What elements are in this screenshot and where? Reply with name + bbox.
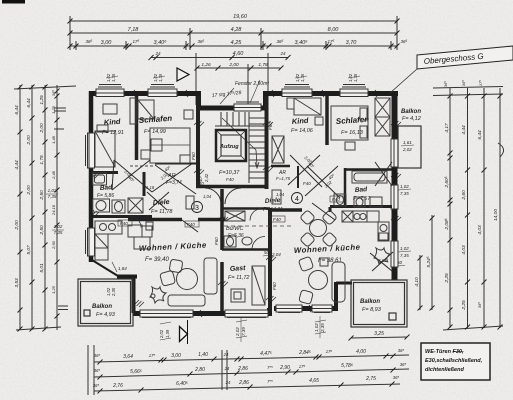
left kitchen (95, 221, 152, 260)
top-right balcony (398, 126, 421, 168)
Diele|Wohnen wall (128, 218, 182, 222)
svg-text:24: 24 (154, 51, 161, 56)
door gap to Wohnen (182, 220, 198, 232)
svg-text:AR: AR (167, 173, 176, 179)
svg-text:1,02: 1,02 (54, 224, 63, 229)
svg-text:3,40⁵: 3,40⁵ (294, 39, 308, 46)
stair hall bottom wall (196, 185, 268, 189)
svg-text:4,65: 4,65 (309, 378, 319, 384)
entry door arcs (205, 188, 221, 204)
svg-text:2,42: 2,42 (204, 173, 209, 183)
svg-text:3,25: 3,25 (374, 331, 384, 337)
svg-text:3: 3 (195, 205, 199, 212)
svg-text:F= 14,99: F= 14,99 (144, 129, 166, 135)
svg-text:7⁷⁵: 7⁷⁵ (267, 365, 273, 370)
svg-text:36⁵: 36⁵ (401, 39, 408, 44)
svg-text:5,24⁵: 5,24⁵ (426, 256, 432, 267)
svg-text:36⁵: 36⁵ (86, 39, 93, 44)
svg-text:1,25: 1,25 (51, 105, 56, 114)
center wall left apt|Gast (220, 189, 224, 250)
svg-text:F=10,37: F=10,37 (219, 170, 240, 176)
svg-text:36⁵: 36⁵ (400, 362, 407, 367)
dim line row4 24/4,60/24 (151, 57, 288, 59)
Diele-Bad door (147, 192, 167, 210)
svg-text:F40: F40 (187, 222, 195, 227)
svg-text:7⁷⁵: 7⁷⁵ (267, 379, 273, 384)
svg-text:19,60: 19,60 (233, 14, 248, 20)
svg-text:3,53: 3,53 (14, 278, 20, 288)
balcony door right wohnen (370, 253, 392, 271)
rotated door dims (123, 154, 336, 189)
svg-text:2,50: 2,50 (51, 240, 56, 250)
Gast furniture (231, 266, 265, 305)
rotated window dims above top wall (106, 73, 360, 82)
svg-text:Fenster 2,50m²: Fenster 2,50m² (235, 81, 269, 87)
svg-text:4,00: 4,00 (356, 349, 366, 355)
section triangles (159, 320, 188, 344)
svg-text:1,39: 1,39 (165, 329, 170, 338)
plant right (374, 248, 390, 264)
svg-text:2,86: 2,86 (237, 366, 248, 372)
svg-text:5,66⁵: 5,66⁵ (130, 369, 142, 375)
svg-text:1,25: 1,25 (51, 285, 56, 294)
svg-text:Balkon: Balkon (401, 109, 421, 115)
right Bad fixtures (334, 171, 387, 207)
stairs (215, 112, 265, 183)
svg-text:Aufzug: Aufzug (219, 144, 239, 150)
Kind door X (112, 160, 150, 190)
left Wohnen furniture (150, 258, 217, 306)
left Bad fixtures (93, 173, 144, 213)
svg-text:36⁵: 36⁵ (277, 39, 284, 44)
svg-text:2,80: 2,80 (194, 367, 205, 373)
svg-text:1,02: 1,02 (48, 188, 57, 193)
svg-text:2,02: 2,02 (235, 327, 240, 337)
svg-text:4,10: 4,10 (414, 277, 420, 287)
svg-text:1,04: 1,04 (203, 194, 212, 199)
svg-text:F=3,74: F=3,74 (166, 180, 182, 186)
right Diele small table (272, 190, 281, 204)
windows in left wall (86, 133, 95, 256)
svg-text:3,40⁶: 3,40⁶ (154, 39, 168, 46)
svg-text:17⁵: 17⁵ (478, 80, 483, 86)
svg-text:5,78⁶: 5,78⁶ (341, 363, 353, 369)
right wall (392, 91, 398, 280)
svg-text:24,18: 24,18 (51, 204, 56, 216)
balcony bottom dim 3,25 (351, 337, 407, 338)
svg-text:2,75: 2,75 (365, 376, 376, 382)
svg-text:5,07: 5,07 (26, 245, 32, 255)
svg-text:36⁵: 36⁵ (51, 90, 56, 96)
stairwell right wall (265, 96, 269, 189)
left wall to balcony diagonal (92, 260, 118, 276)
svg-text:36⁵: 36⁵ (477, 302, 482, 308)
elevator (216, 130, 246, 161)
Bad left wall (344, 168, 347, 208)
door diagonal crosses left apartment (112, 160, 241, 232)
right Kind furniture (272, 98, 323, 163)
svg-text:1,35: 1,35 (353, 73, 358, 82)
top wall left apartment (89, 91, 198, 96)
svg-text:F40: F40 (273, 217, 281, 222)
left wall (89, 91, 94, 262)
bottom dimension rows (88, 345, 409, 395)
svg-text:dichtenließend: dichtenließend (425, 367, 464, 373)
svg-text:2,00: 2,00 (14, 220, 20, 231)
INTERIOR WALLS right apartment (271, 96, 392, 212)
svg-text:36⁵: 36⁵ (398, 348, 405, 353)
Bü/WC top wall (222, 207, 270, 210)
arrow line of stair (222, 118, 256, 150)
windows in top wall (96, 85, 368, 112)
svg-text:4: 4 (295, 196, 299, 203)
svg-text:17⁵: 17⁵ (133, 39, 140, 44)
svg-text:3,00: 3,00 (171, 353, 181, 359)
right dimension columns (420, 87, 503, 331)
svg-text:1,75: 1,75 (39, 155, 45, 165)
fenster leader lines (220, 80, 260, 104)
svg-text:1,40: 1,40 (198, 352, 208, 358)
svg-text:2,25: 2,25 (461, 300, 467, 311)
svg-text:24: 24 (224, 366, 230, 371)
Bad bottom wall (330, 205, 392, 208)
svg-text:4,44: 4,44 (461, 125, 467, 135)
svg-text:WE-Türen F30,: WE-Türen F30, (425, 349, 464, 355)
svg-text:F= 14,06: F= 14,06 (291, 128, 314, 134)
svg-text:50: 50 (264, 250, 270, 255)
svg-text:Bü/WC: Bü/WC (226, 226, 243, 232)
jog between apartments at bottom (267, 308, 272, 316)
svg-text:1,35: 1,35 (111, 73, 116, 82)
bottom wall left apt (133, 311, 272, 316)
svg-text:Bad: Bad (355, 186, 369, 194)
Schlafen right / stairwell left wall (196, 96, 200, 186)
svg-text:2,00: 2,00 (39, 123, 45, 134)
svg-text:1,02: 1,02 (314, 323, 319, 332)
svg-text:2,00: 2,00 (26, 185, 32, 196)
svg-text:24: 24 (223, 352, 229, 357)
svg-text:2,04: 2,04 (271, 252, 281, 257)
svg-text:36⁵: 36⁵ (94, 353, 101, 358)
left Diele cabinet (146, 196, 194, 230)
dim line 19,60 (70, 20, 397, 22)
svg-text:2,02: 2,02 (402, 147, 412, 152)
svg-text:F60: F60 (214, 237, 219, 245)
svg-text:Diele: Diele (153, 199, 170, 207)
extra door arcs (130, 209, 265, 250)
svg-text:2,08⁶: 2,08⁶ (444, 218, 450, 230)
plant (150, 287, 166, 303)
svg-text:1,61: 1,61 (403, 140, 412, 145)
svg-text:5,01: 5,01 (39, 263, 45, 273)
right edge curve mark (498, 143, 504, 157)
dim line 7,18 / 4,28 / 8,00 (70, 32, 397, 34)
svg-text:6,40⁵: 6,40⁵ (176, 381, 188, 387)
svg-text:F40: F40 (120, 221, 128, 226)
Kind|Schlafen wall (325, 96, 329, 145)
dim line row5 1,26/2,00/1,78 (197, 67, 281, 69)
svg-text:1,48: 1,48 (51, 135, 56, 144)
stairwell window (234, 104, 261, 111)
svg-text:36⁵: 36⁵ (393, 375, 400, 380)
left Kind furniture (95, 98, 136, 167)
svg-text:1,78: 1,78 (258, 62, 268, 68)
svg-text:Balkon: Balkon (92, 304, 112, 310)
svg-text:2,86: 2,86 (238, 380, 249, 386)
svg-text:1,84: 1,84 (118, 266, 127, 271)
svg-text:1,18: 1,18 (146, 185, 155, 190)
svg-text:14,00: 14,00 (493, 209, 499, 221)
svg-text:F60: F60 (272, 282, 277, 290)
svg-text:F= 39,40: F= 39,40 (145, 257, 170, 263)
bottom wall right apt (274, 306, 338, 311)
wall right of Gast (268, 208, 272, 311)
Bad bottom wall (93, 215, 152, 218)
svg-text:1,26: 1,26 (201, 62, 211, 68)
bottom-right balcony (351, 280, 407, 327)
svg-text:2,00: 2,00 (228, 62, 239, 68)
svg-text:36⁵: 36⁵ (94, 368, 101, 373)
svg-text:2,90: 2,90 (279, 365, 290, 371)
svg-text:F60: F60 (268, 122, 273, 130)
AR walls (155, 163, 198, 165)
svg-text:2,76: 2,76 (112, 383, 123, 389)
svg-text:1,02: 1,02 (400, 246, 409, 251)
Kind bottom / Bad top (93, 171, 118, 174)
labels along right wall (377, 140, 414, 266)
Bü/WC fixtures (224, 211, 252, 247)
svg-text:2,25: 2,25 (444, 273, 450, 284)
Bad top wall (345, 168, 392, 171)
svg-text:2,35: 2,35 (320, 323, 325, 333)
svg-text:4,47⁵: 4,47⁵ (260, 351, 272, 357)
svg-text:4,03: 4,03 (461, 245, 467, 255)
left Schlafen furniture (138, 100, 193, 163)
svg-text:4,03: 4,03 (477, 225, 483, 235)
svg-text:36⁵: 36⁵ (461, 80, 466, 86)
bottom-left balcony (78, 279, 133, 326)
svg-text:2,60⁵: 2,60⁵ (444, 176, 450, 188)
svg-text:7,39: 7,39 (241, 327, 246, 336)
svg-text:1,02: 1,02 (400, 184, 409, 189)
svg-text:2,35: 2,35 (111, 287, 116, 297)
svg-text:F40: F40 (196, 181, 204, 186)
svg-text:24: 24 (225, 380, 231, 385)
svg-text:F= 11,78: F= 11,78 (151, 209, 173, 215)
svg-text:4,17: 4,17 (444, 123, 450, 133)
svg-text:1,35: 1,35 (158, 73, 163, 82)
svg-text:F40: F40 (226, 177, 234, 182)
windows bottom walls (140, 305, 332, 318)
top-left black bar (2, 0, 25, 4)
extra left col dashes (54, 108, 66, 129)
Kind|Schlafen wall (135, 96, 139, 160)
svg-text:8,00: 8,00 (328, 27, 340, 33)
top wall right apartment (266, 91, 398, 96)
svg-text:6,44: 6,44 (26, 98, 32, 108)
svg-text:4,25: 4,25 (231, 40, 243, 46)
Bü/WC bottom wall (222, 248, 270, 251)
svg-text:2,48: 2,48 (51, 170, 56, 180)
svg-text:F= 38,61: F= 38,61 (318, 258, 342, 264)
svg-text:3,00: 3,00 (101, 40, 113, 46)
svg-text:E30,schallschließend,: E30,schallschließend, (425, 358, 483, 364)
Kind bottom / AR top (271, 165, 290, 168)
svg-text:F= 11,72: F= 11,72 (228, 275, 249, 281)
recessed stairwell facade (196, 106, 268, 111)
svg-text:F= 4,93: F= 4,93 (96, 312, 116, 318)
svg-text:17⁵: 17⁵ (328, 39, 335, 44)
svg-text:7,35: 7,35 (400, 191, 409, 196)
svg-text:F= 5,86: F= 5,86 (97, 193, 114, 199)
svg-text:F= 4,12: F= 4,12 (402, 116, 421, 122)
svg-text:4,28: 4,28 (231, 27, 243, 33)
EXTERIOR WALLS (89, 91, 398, 316)
svg-text:7,35: 7,35 (400, 253, 409, 258)
svg-text:36⁵: 36⁵ (93, 383, 100, 388)
svg-text:2,02: 2,02 (159, 329, 164, 339)
svg-text:17⁵: 17⁵ (149, 353, 156, 358)
svg-text:3,70: 3,70 (346, 40, 358, 46)
AR right wall (297, 166, 299, 188)
svg-text:4,60: 4,60 (233, 51, 245, 57)
svg-text:1,25: 1,25 (39, 95, 45, 105)
door diagonal crosses right apartment (288, 155, 393, 271)
svg-text:2,50: 2,50 (39, 225, 45, 236)
right kitchen (342, 211, 389, 241)
svg-text:7,18: 7,18 (128, 27, 140, 33)
left dimension columns (14, 85, 76, 330)
note box bottom right (421, 343, 490, 380)
svg-text:F= 8,93: F= 8,93 (362, 307, 382, 313)
svg-text:6,44: 6,44 (477, 130, 483, 140)
svg-text:7,35: 7,35 (48, 194, 57, 199)
svg-text:2,84⁵: 2,84⁵ (298, 350, 311, 356)
left edge equals marks (58, 306, 68, 310)
svg-text:7,35: 7,35 (54, 230, 63, 235)
svg-text:17⁶: 17⁶ (326, 349, 333, 354)
Bad right wall (143, 172, 146, 196)
svg-text:F40: F40 (303, 181, 311, 186)
svg-text:2,00: 2,00 (26, 135, 32, 146)
svg-text:1,35: 1,35 (300, 73, 305, 82)
svg-text:36⁵: 36⁵ (198, 39, 205, 44)
dim line row3 (70, 45, 397, 47)
svg-text:6,44: 6,44 (14, 105, 20, 115)
right Wohnen sitting (298, 248, 390, 304)
svg-text:36⁵: 36⁵ (443, 81, 448, 87)
AR door X (152, 163, 193, 192)
svg-text:2,50: 2,50 (39, 190, 45, 201)
INTERIOR WALLS left apartment (93, 96, 270, 311)
svg-text:F= 14,01: F= 14,01 (263, 207, 283, 213)
rotated dims below middle bottom (106, 287, 326, 342)
svg-text:F=1,75: F=1,75 (276, 176, 291, 181)
Diele|Wohnen wall (271, 208, 302, 212)
right Wohnen dining (300, 210, 338, 248)
svg-text:4,44: 4,44 (14, 160, 20, 170)
dashed line through Bue/WC (224, 225, 292, 227)
svg-text:Balkon: Balkon (360, 299, 380, 305)
right Schlafen furniture (331, 98, 390, 150)
svg-text:24: 24 (279, 51, 286, 56)
windows/doors in right wall (391, 139, 398, 267)
svg-text:17⁵: 17⁵ (299, 364, 306, 369)
svg-text:3,64: 3,64 (123, 354, 133, 360)
svg-text:F60: F60 (191, 152, 196, 160)
Obergeschoss box (390, 46, 513, 93)
svg-text:2,60: 2,60 (461, 190, 467, 201)
svg-text:Gast: Gast (230, 265, 247, 273)
svg-text:Kind: Kind (292, 116, 310, 126)
